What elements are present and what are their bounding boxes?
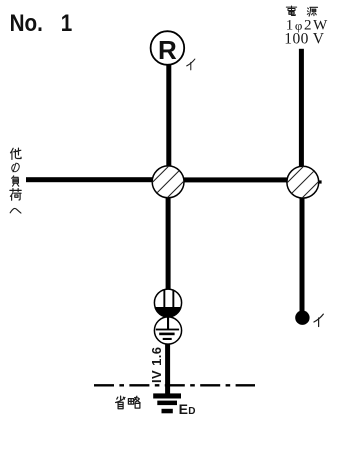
wire stub on right of junction box B <box>319 180 322 183</box>
boundary dash-dot line (installation omitted below) <box>94 384 255 386</box>
receptacle outlet (circle, wall-side blackened) <box>154 289 181 318</box>
wire: earth conductor drop to ground <box>165 330 170 396</box>
svg-text:R: R <box>158 35 177 65</box>
label イ (at lamp receptacle) <box>187 59 195 70</box>
svg-text:E: E <box>179 401 188 417</box>
wire: source feed drop to junction box B <box>299 49 304 183</box>
wire: junction box B down to outlet dot <box>300 182 305 313</box>
ceiling outlet dot イ <box>295 311 309 325</box>
wire: junction box A to junction box B <box>167 177 303 182</box>
svg-text:IV 1.6: IV 1.6 <box>149 347 164 383</box>
junction box A (hatched circle) <box>145 160 192 203</box>
svg-text:100 V: 100 V <box>284 31 324 48</box>
wire: lamp receptacle drop to junction box A <box>166 63 171 183</box>
wire: branch to other loads (left) <box>26 177 169 182</box>
svg-text:No.: No. <box>10 9 43 36</box>
earth terminal (circle with earth mark) <box>154 317 181 344</box>
svg-text:D: D <box>188 406 195 417</box>
label 他の負荷へ (to other loads) <box>10 148 21 213</box>
wire: junction box A down to receptacle outlet <box>166 181 171 303</box>
svg-text:1: 1 <box>61 9 72 36</box>
junction box B (hatched circle) <box>279 161 326 204</box>
label: power source name 電源 <box>286 6 317 16</box>
title "No. 1" <box>10 9 73 36</box>
ground electrode symbol <box>153 393 181 413</box>
label イ (at outlet dot) <box>314 314 323 326</box>
lamp receptacle R <box>151 31 185 65</box>
label ED (earth electrode) <box>179 401 196 417</box>
label 省略 (omitted) <box>116 396 141 409</box>
